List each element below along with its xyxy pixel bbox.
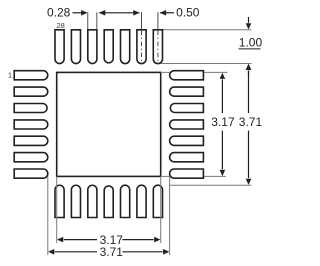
dimension 0.50: left arrow and leader (160, 10, 166, 16)
svg-text:1.00: 1.00 (239, 36, 263, 50)
pin 27 pad (top row) (71, 30, 80, 64)
extension line: top pad tips (3.71 vertical dim / 1.00 dim bottom) (161, 63, 252, 65)
pin 7 pad (left column) (14, 169, 48, 178)
dimension 3.17 bottom: dim line left segment with left arrow (64, 239, 97, 241)
pin 25 pad (top row) (104, 30, 113, 63)
extension line: left pad tips (3.71 bottom dim) (47, 176, 49, 255)
pin 4 pad (left column) (14, 120, 48, 129)
package body outline (57, 72, 161, 176)
pin 6 pad (left column) (14, 153, 48, 162)
extension line: body top edge (3.17 vertical dim) (161, 71, 228, 73)
pin 1 pad (left column) (14, 71, 48, 80)
pin 28 pad (top row) (55, 30, 64, 64)
extension line: bottom pad tips (3.71 vertical dim) (170, 184, 252, 186)
pin 21 pad (right column) (170, 71, 204, 80)
svg-text:28: 28 (57, 21, 65, 30)
svg-text:1: 1 (8, 70, 12, 79)
pin 13 pad (bottom row) (137, 185, 146, 217)
dimension 1.00: up arrow below bottom extension line (248, 71, 250, 75)
pin 23 pad (top row) (137, 30, 146, 64)
pin 18 pad (right column) (170, 120, 204, 129)
extension line: body left edge (3.17 bottom dim, crosses pin 8) (56, 176, 58, 243)
dimension 3.17 vertical: dim line upper segment with up arrow (221, 79, 223, 113)
pin 12 pad (bottom row) (121, 185, 130, 217)
pin 9 pad (bottom row) (71, 185, 80, 217)
pin 26 pad (top row) (88, 30, 97, 64)
dimension 0.28: extension line at pin 25 right edge (96, 12, 98, 29)
pin 8 pad (bottom row) (55, 185, 64, 217)
pin 16 pad (right column) (170, 153, 204, 162)
svg-text:3.71: 3.71 (239, 115, 263, 129)
extension line: top pad outer edge (1.00 dim top) (163, 29, 252, 31)
dimension 3.17 bottom: dim line right segment with right arrow (123, 239, 154, 241)
dimension 3.17 vertical: dim line lower segment with down arrow (221, 131, 223, 170)
pin 17 pad (right column) (170, 136, 204, 145)
svg-text:0.28: 0.28 (47, 6, 71, 20)
extension line: right pad tips (3.71 bottom dim) (169, 176, 171, 255)
dimension 3.71 vertical: dim line upper segment with up arrow (248, 71, 250, 114)
dimension 3.71 vertical: dim line lower segment with down arrow (248, 131, 250, 179)
extension line: body right edge (3.17 bottom dim, crosses pin 14) (160, 176, 162, 243)
svg-text:3.71: 3.71 (100, 245, 124, 259)
dimension 3.71 bottom: dim line left segment with left arrow (55, 251, 97, 253)
svg-text:3.17: 3.17 (211, 115, 235, 129)
pin 5 pad (left column) (14, 136, 48, 145)
shared shaft between 0.28 left-arrow and 0.50 right-arrow (99, 12, 139, 14)
pin 3 pad (left column) (14, 104, 47, 113)
dimension 0.50: center line through pin 23 (solid above pin, dash-dot inside) (141, 12, 143, 29)
pin 19 pad (right column) (170, 104, 203, 113)
pin 22 pad (top row) (153, 30, 162, 64)
extension line: body bottom edge (3.17 vertical dim) (161, 175, 226, 177)
dimension 3.71 bottom: dim line right segment with right arrow (123, 251, 163, 253)
pin 15 pad (right column) (170, 169, 204, 178)
pin 11 pad (bottom row) (104, 186, 113, 218)
dimension 0.28: extension line at pin 25 left edge (87, 12, 89, 29)
pin 24 pad (top row) (121, 30, 130, 64)
svg-text:0.50: 0.50 (176, 6, 200, 20)
pin 20 pad (right column) (170, 87, 204, 96)
pin 2 pad (left column) (14, 87, 48, 96)
dimension 0.50: center line through pin 22 (solid above pin, dash-dot inside) (157, 12, 159, 29)
pin 10 pad (bottom row) (88, 185, 97, 217)
dimension 0.28: leader with right arrow (73, 12, 87, 14)
dimension 1.00: down arrow above top extension line (248, 17, 250, 23)
pin 14 pad (bottom row) (153, 185, 162, 217)
